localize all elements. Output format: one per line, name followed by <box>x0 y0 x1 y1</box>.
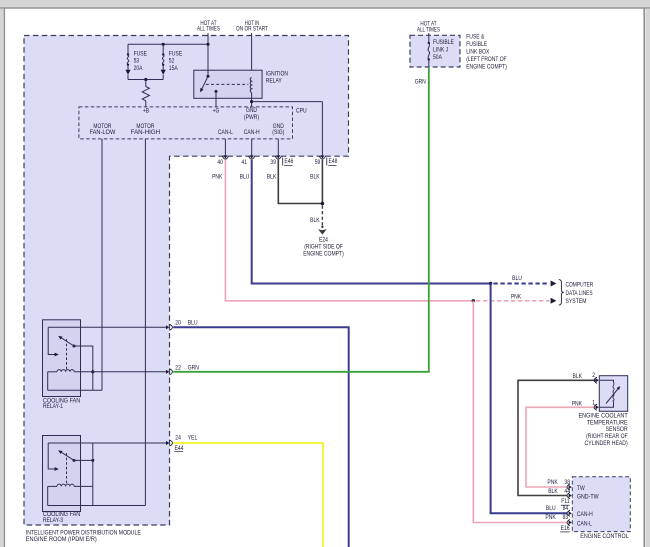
relay 1 (cooling fan relay-1) box <box>43 320 81 397</box>
svg-text:BLK: BLK <box>267 174 277 181</box>
svg-text:PNK: PNK <box>547 479 558 486</box>
svg-text:FUSIBLE: FUSIBLE <box>466 41 487 48</box>
wire GRN fusible link to pin 22 <box>173 67 429 372</box>
svg-text:ENGINE COMPT): ENGINE COMPT) <box>303 250 344 257</box>
svg-text:CAN-H: CAN-H <box>577 511 593 518</box>
ignition relay link (dashed) <box>206 83 249 85</box>
ignition relay box <box>194 70 262 98</box>
ECM pin 38 TW connector <box>569 485 572 489</box>
node fuse bus junction <box>144 78 147 81</box>
svg-text:+B: +B <box>143 108 150 115</box>
wire YEL pin 24 motor fan high <box>173 443 323 547</box>
svg-text:15A: 15A <box>169 65 178 72</box>
wire PNK sensor pin 1 to ECM TW <box>526 407 597 487</box>
svg-text:E44: E44 <box>175 445 184 452</box>
pin 20 connector <box>166 325 169 329</box>
relay 3 switch output wire to pin 24 <box>48 442 166 444</box>
relay 3 coil <box>48 485 57 487</box>
fusible link J 50A <box>428 33 430 43</box>
relay 3 coil box <box>48 486 146 505</box>
svg-text:83: 83 <box>563 514 569 521</box>
svg-text:50A: 50A <box>433 54 442 61</box>
svg-text:BLU: BLU <box>240 174 250 181</box>
ground E24 arrow <box>319 229 327 234</box>
arrow BLU data line <box>551 281 557 287</box>
svg-text:FUSE: FUSE <box>169 51 183 58</box>
ignition relay coil <box>250 78 251 93</box>
relay 3 (cooling fan relay-3) box <box>43 436 81 512</box>
svg-text:20: 20 <box>175 319 181 326</box>
wire CAN-H to pin 41 <box>251 139 253 156</box>
wire hot-in-on-or-start feed to ignition relay coil <box>251 33 253 78</box>
ECM pin 44 GND-TW connector F11 <box>569 493 572 497</box>
engine coolant temperature sensor box <box>599 376 627 412</box>
svg-text:COMPUTER: COMPUTER <box>566 282 594 289</box>
ignition relay switch blade <box>207 44 209 76</box>
relay 1 switch to coil-output junction <box>74 346 93 372</box>
svg-text:PNK: PNK <box>511 294 522 301</box>
wire hot-at-all-times feed into IPDM <box>207 33 209 44</box>
svg-text:59: 59 <box>315 159 321 166</box>
window frame left bar <box>0 9 4 547</box>
fuse 52 15A <box>162 44 164 54</box>
svg-text:44: 44 <box>564 488 570 495</box>
ECM pin 84 CAN-H connector <box>569 511 572 515</box>
pin 40 connector <box>223 155 227 158</box>
svg-text:(PWR): (PWR) <box>244 114 259 121</box>
svg-text:39: 39 <box>270 159 276 166</box>
brace computer data lines <box>559 280 564 305</box>
wire BLK sensor pin 2 to ECM GND-TW <box>518 380 597 495</box>
svg-text:40: 40 <box>217 159 223 166</box>
wire fuse output bus <box>128 79 163 81</box>
svg-text:BLK: BLK <box>573 373 583 380</box>
svg-text:20A: 20A <box>134 65 143 72</box>
wire CAN-L to pin 40 <box>224 139 226 156</box>
relay 1 coil box <box>48 372 102 391</box>
svg-text:E24: E24 <box>319 237 328 244</box>
engine control module box (dashed) <box>572 477 630 532</box>
arrow PNK data line <box>551 298 557 304</box>
ECM pin 83 CAN-L connector E16 <box>569 520 572 524</box>
resistor +B dropping <box>145 80 147 87</box>
node BLU data line junction <box>489 282 492 285</box>
wire BLK dashed to ground <box>321 206 323 226</box>
node coil ground branch <box>250 100 253 103</box>
svg-text:ENGINE CONTROL: ENGINE CONTROL <box>580 533 629 540</box>
svg-text:53: 53 <box>134 58 140 65</box>
svg-text:CYLINDER HEAD): CYLINDER HEAD) <box>585 440 628 447</box>
svg-text:ON OR START: ON OR START <box>236 26 268 33</box>
svg-text:FUSIBLE: FUSIBLE <box>433 39 454 46</box>
svg-text:E48: E48 <box>329 158 338 165</box>
wire BLU dashed to computer data lines <box>493 283 549 285</box>
svg-text:(SIG): (SIG) <box>272 129 284 136</box>
svg-text:PNK: PNK <box>545 514 556 521</box>
svg-text:CAN-H: CAN-H <box>244 129 260 136</box>
svg-text:41: 41 <box>241 159 247 166</box>
svg-text:FAN-LOW: FAN-LOW <box>89 129 116 136</box>
relay 3 link (dashed) <box>66 453 68 485</box>
svg-text:(LEFT FRONT OF: (LEFT FRONT OF <box>466 56 506 63</box>
svg-text:GND-TW: GND-TW <box>577 493 599 500</box>
ignition relay contact to +G <box>215 90 218 93</box>
node relay 1 coil junction <box>91 370 94 373</box>
svg-text:FUSE: FUSE <box>134 51 148 58</box>
wire fuse supply rail <box>128 43 208 45</box>
svg-text:IGNITION: IGNITION <box>266 70 288 77</box>
svg-text:TW: TW <box>577 485 585 492</box>
pin 59 connector E48 <box>320 155 324 158</box>
svg-text:24: 24 <box>175 434 181 441</box>
svg-text:RELAY: RELAY <box>266 77 283 84</box>
svg-text:2: 2 <box>592 372 595 379</box>
svg-text:FAN-HIGH: FAN-HIGH <box>131 129 161 136</box>
svg-text:CAN-L: CAN-L <box>218 129 233 136</box>
svg-text:DATA LINES: DATA LINES <box>566 290 594 297</box>
svg-text:CAN-L: CAN-L <box>577 520 592 527</box>
window frame top bar <box>0 0 650 7</box>
svg-text:E16: E16 <box>561 525 570 532</box>
svg-text:84: 84 <box>563 505 569 512</box>
wire MOTOR FAN-LOW to relay 1 coil <box>101 139 103 390</box>
pin 24 connector <box>166 441 169 445</box>
svg-text:38: 38 <box>564 479 570 486</box>
svg-text:GRN: GRN <box>188 365 199 372</box>
IPDM E/R module box (lavender, dashed) <box>24 36 349 526</box>
fuse 53 20A <box>127 44 129 54</box>
svg-text:22: 22 <box>175 365 181 372</box>
svg-text:LINK J: LINK J <box>433 47 448 54</box>
svg-text:RELAY-1: RELAY-1 <box>43 403 63 410</box>
svg-text:LINK BOX: LINK BOX <box>466 49 490 56</box>
pin 39 connector E46 <box>276 155 280 158</box>
wire PNK to ECM CAN-L <box>473 301 567 523</box>
node rail junction <box>206 43 209 46</box>
fusible link box (dashed) <box>410 35 460 67</box>
thermistor inside sensor <box>600 380 614 382</box>
svg-text:BLK: BLK <box>548 488 558 495</box>
pin 41 connector <box>250 155 254 158</box>
sensor pin 1 connector <box>596 405 599 409</box>
CPU box (dashed) <box>79 107 293 139</box>
svg-text:52: 52 <box>169 58 175 65</box>
window frame right bar <box>645 9 650 547</box>
relay 3 switch blade <box>73 459 76 462</box>
svg-text:ENGINE ROOM (IPDM E/R): ENGINE ROOM (IPDM E/R) <box>26 536 97 543</box>
wire BLU pin 20 motor fan low <box>173 327 349 547</box>
svg-text:ALL TIMES: ALL TIMES <box>417 27 440 34</box>
svg-text:E46: E46 <box>284 158 293 165</box>
svg-text:SYSTEM: SYSTEM <box>566 298 587 305</box>
node ground junction <box>321 202 325 206</box>
sensor pin 2 connector <box>596 378 599 382</box>
wire relay 1 coil to pin 22 <box>74 371 166 373</box>
wire GND(SIG) to pin 39 <box>277 139 279 156</box>
node PNK data line junction <box>472 299 475 302</box>
node fuse 52 tap <box>162 43 165 46</box>
svg-text:GRN: GRN <box>415 79 426 86</box>
svg-text:PNK: PNK <box>572 400 583 407</box>
relay 3 fixed contact <box>48 443 56 469</box>
svg-text:FUSE &: FUSE & <box>466 34 485 41</box>
svg-text:BLK: BLK <box>310 174 320 181</box>
svg-text:YEL: YEL <box>188 434 198 441</box>
svg-text:PNK: PNK <box>212 174 223 181</box>
svg-text:+G: +G <box>213 108 220 115</box>
relay 1 coil <box>48 371 57 373</box>
svg-text:BLU: BLU <box>546 505 556 512</box>
wire coil ground to pin 59 <box>252 101 323 103</box>
relay 1 fixed contact <box>48 327 56 354</box>
svg-text:BLK: BLK <box>310 217 320 224</box>
wire BLU to ECM CAN-H <box>491 284 567 514</box>
pin 22 connector <box>166 370 169 374</box>
svg-text:BLU: BLU <box>512 275 522 282</box>
relay 1 link (dashed) <box>66 339 68 371</box>
wire PNK dashed to computer data lines <box>476 300 550 302</box>
svg-text:BLU: BLU <box>188 319 198 326</box>
relay 1 switch output wire to pin 20 <box>48 326 166 328</box>
wire MOTOR FAN-HIGH to relay 3 coil <box>144 139 146 506</box>
svg-text:ENGINE COMPT): ENGINE COMPT) <box>466 64 507 71</box>
svg-text:ALL TIMES: ALL TIMES <box>197 26 220 33</box>
relay 3 switch junction wire <box>74 459 93 461</box>
svg-text:RELAY-3: RELAY-3 <box>43 517 63 524</box>
svg-text:CPU: CPU <box>296 107 307 114</box>
relay 1 switch blade <box>73 345 76 348</box>
